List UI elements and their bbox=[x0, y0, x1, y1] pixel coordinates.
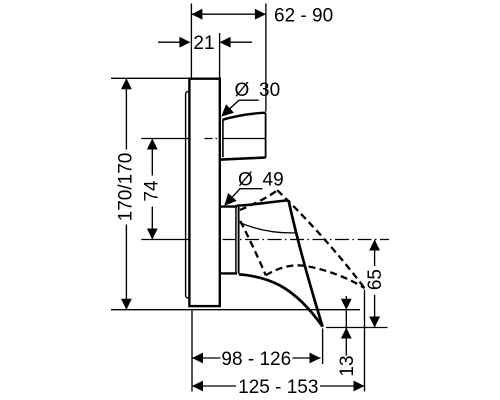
svg-text:170/170: 170/170 bbox=[115, 153, 136, 222]
svg-text:30: 30 bbox=[259, 80, 280, 101]
svg-text:65: 65 bbox=[365, 269, 386, 290]
svg-text:Ø: Ø bbox=[238, 170, 253, 191]
svg-text:74: 74 bbox=[141, 180, 162, 202]
svg-text:Ø: Ø bbox=[235, 80, 250, 101]
svg-text:62 - 90: 62 - 90 bbox=[274, 6, 333, 27]
svg-text:98 - 126: 98 - 126 bbox=[221, 349, 291, 370]
svg-text:49: 49 bbox=[263, 170, 284, 191]
svg-text:125 - 153: 125 - 153 bbox=[238, 377, 318, 398]
svg-text:13: 13 bbox=[337, 355, 358, 376]
svg-text:21: 21 bbox=[193, 33, 214, 54]
